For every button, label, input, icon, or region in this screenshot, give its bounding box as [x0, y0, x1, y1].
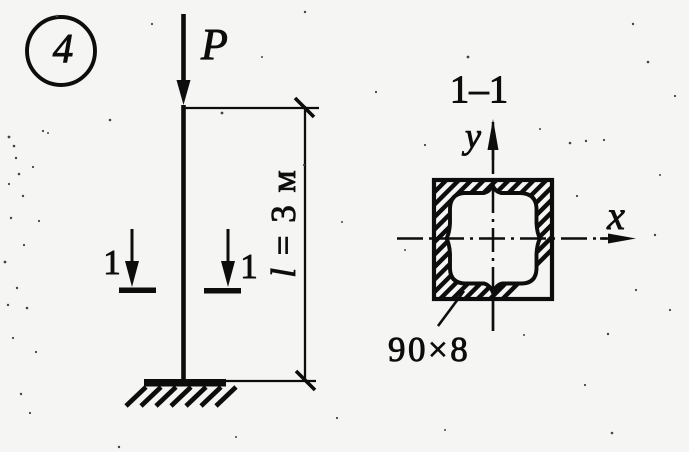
svg-text:l = 3 м: l = 3 м	[264, 168, 303, 277]
top extension line	[184, 107, 319, 109]
svg-text:90×8: 90×8	[388, 330, 470, 369]
svg-text:P: P	[200, 20, 228, 69]
ground bar	[144, 379, 226, 387]
force P arrow line	[181, 14, 186, 84]
section mark right bar	[204, 288, 241, 294]
horizontal centerline / x axis	[397, 237, 607, 240]
x axis arrowhead	[608, 234, 636, 244]
section mark left bar	[119, 288, 156, 294]
section mark left arrow	[131, 229, 134, 265]
vertical centerline / y axis	[492, 150, 495, 302]
bottom tick	[296, 371, 315, 390]
svg-text:1: 1	[103, 243, 121, 282]
section mark right arrow	[227, 229, 230, 265]
circled number 4	[27, 17, 95, 85]
column (vertical bar)	[181, 105, 186, 382]
dimension line l	[304, 106, 306, 381]
svg-text:4: 4	[53, 25, 74, 71]
svg-text:x: x	[606, 193, 625, 238]
svg-text:y: y	[462, 116, 481, 156]
ground hatching	[126, 355, 252, 406]
inner hole outline	[447, 185, 541, 293]
outer square	[434, 180, 552, 299]
force P arrowhead	[177, 80, 191, 105]
svg-text:1–1: 1–1	[450, 68, 509, 111]
svg-text:1: 1	[240, 247, 258, 286]
y axis arrowhead	[488, 119, 499, 150]
wall hatching	[302, 172, 630, 312]
top tick	[295, 98, 314, 117]
leader line for 90x8	[438, 291, 464, 326]
bottom extension line	[186, 380, 316, 382]
